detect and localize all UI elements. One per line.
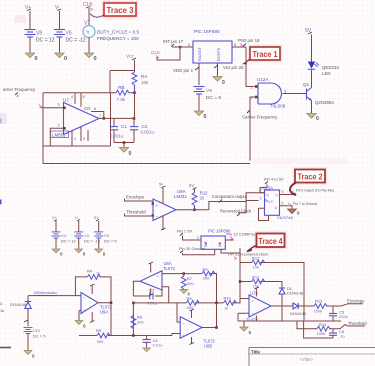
LED D2 QED234 bbox=[308, 62, 340, 77]
FF lower right pin bbox=[280, 206, 293, 209]
opamp left power stubs bbox=[91, 286, 93, 323]
wire carrier vertical to gate pin2 bbox=[250, 97, 258, 161]
resistor R7 to ground bbox=[181, 274, 194, 290]
wire VDD pin down to V9 bbox=[198, 63, 200, 85]
wire to FF clk pin bbox=[246, 200, 258, 202]
ground under rail bbox=[240, 321, 252, 335]
mid rail with R8 bbox=[133, 302, 216, 304]
wire pin4 bbox=[260, 185, 267, 193]
U8B power stubs bbox=[191, 311, 193, 345]
555 bottom pins bbox=[72, 127, 88, 146]
LM555 triangle U7 bbox=[51, 98, 100, 138]
resistor RB bbox=[116, 85, 129, 102]
label 5V bbox=[305, 28, 312, 34]
ground under Vss bbox=[213, 77, 225, 87]
555 box outline bbox=[43, 93, 111, 164]
threshold branch R14 bbox=[297, 321, 345, 336]
output wire bbox=[176, 209, 209, 211]
resistor R12 pullup bbox=[192, 189, 208, 210]
resistor RA bbox=[132, 71, 149, 93]
pic1 U block bbox=[188, 29, 237, 63]
ground +in bbox=[75, 321, 86, 329]
resistor R11 (lower 10k) bbox=[240, 263, 282, 289]
mid ground rail bbox=[238, 320, 341, 322]
U8A pins right bbox=[162, 274, 169, 303]
op-amp U8A mirrored bbox=[140, 261, 176, 290]
op-amp U9A TL072 (left) bbox=[81, 293, 113, 315]
battery V9 bbox=[194, 87, 222, 111]
ground under Q1 bbox=[307, 114, 319, 123]
U8B input wires bbox=[172, 303, 180, 336]
ground under V10 bbox=[24, 351, 35, 359]
FF block U13A bbox=[263, 186, 294, 221]
U8A power stubs bbox=[150, 264, 152, 296]
Trace 1 callout box bbox=[244, 46, 281, 64]
feedback resistor R4 bbox=[75, 269, 111, 303]
label Vcc bbox=[126, 54, 136, 61]
wire recovered clock stub bbox=[238, 202, 246, 213]
op-amp U9A LM311 bbox=[153, 189, 188, 221]
wire pin1 bbox=[183, 236, 202, 241]
wire RA/RB node down to caps bbox=[134, 93, 136, 119]
transistor Q1 bbox=[303, 82, 334, 105]
FF left pins bbox=[259, 193, 265, 209]
source V5 bbox=[94, 215, 117, 249]
label VDD pin 1 bbox=[173, 67, 199, 73]
Trace 2 callout box bbox=[290, 169, 326, 195]
wire top rail with R9 bbox=[162, 274, 217, 303]
FF output Q pin5 bbox=[280, 194, 296, 196]
U8B output bbox=[202, 303, 217, 328]
diode D3 bbox=[10, 296, 31, 326]
capacitor C2 bbox=[130, 118, 155, 142]
ground under C4 bbox=[143, 348, 150, 352]
wire vertical PS0 to gate pin1 bbox=[246, 47, 258, 87]
label Threshold (right) bbox=[345, 321, 367, 326]
label PS0 pin 15 bbox=[238, 38, 260, 47]
bottom cap rail + ground bbox=[114, 143, 134, 148]
555 pin3 bbox=[41, 107, 64, 109]
resistor R13 bbox=[314, 299, 342, 314]
resistor R5 bbox=[79, 328, 133, 344]
diode D4 vertical bbox=[279, 282, 303, 322]
wire gate output to Q1 base bbox=[283, 93, 307, 95]
net label (blue underlined) bbox=[34, 290, 58, 295]
wire Vss pin down bbox=[217, 63, 219, 76]
label Pin 20 Ground bbox=[179, 246, 205, 253]
Trace 3 callout box bbox=[90, 2, 137, 17]
label Comparator output bbox=[212, 194, 248, 203]
555 pin2 bbox=[50, 128, 63, 146]
capacitor C4 bbox=[142, 336, 162, 348]
label Pin 12 COMPout bbox=[227, 232, 258, 240]
source V6 bbox=[54, 5, 86, 53]
lm311 power stubs bbox=[162, 188, 164, 230]
ground under V3 bbox=[75, 249, 86, 257]
pulse source VT bbox=[83, 2, 139, 53]
node junction dots bbox=[255, 85, 258, 88]
wire PS0 from pin8 bbox=[232, 46, 246, 48]
label Pin 11 recovered clock bbox=[228, 252, 268, 260]
ground under caps bbox=[119, 148, 131, 158]
ground under V9 bbox=[194, 111, 206, 120]
resistor R2 (upper 10k) bbox=[240, 256, 304, 322]
capacitor C5 bbox=[329, 306, 348, 321]
wire pin12 bbox=[225, 239, 233, 240]
label Pin 4 to 5V bbox=[264, 177, 284, 185]
ground under V5 bbox=[95, 249, 106, 257]
output rail from 555 apex bbox=[99, 117, 134, 119]
wire 5V to LED bbox=[311, 35, 313, 62]
bottom rail bbox=[133, 335, 172, 337]
label INT pin 17 bbox=[163, 39, 184, 47]
label Envelope (right) bbox=[341, 299, 365, 307]
node envelope pin bbox=[152, 203, 154, 205]
left edge clipped marks bbox=[0, 15, 26, 348]
label CLK (to PIC1) bbox=[151, 50, 161, 59]
resistor R9 bbox=[202, 267, 215, 281]
battery V10 bbox=[23, 320, 46, 350]
FF bottom loop wire bbox=[259, 208, 269, 220]
diode D1 horizontal bbox=[290, 303, 314, 316]
ground under VT bbox=[84, 53, 96, 62]
ground under V8 bbox=[25, 53, 37, 62]
wire collector up / emitter down bbox=[311, 70, 313, 88]
output wire bbox=[98, 303, 111, 336]
right opamp -in wire bbox=[238, 313, 249, 321]
U8A output wire going left/down bbox=[133, 281, 140, 335]
wire -in from diode node bbox=[28, 295, 81, 297]
pic2 block bbox=[201, 229, 231, 250]
and gate U12A bbox=[251, 77, 288, 109]
wire comparator output to FF bbox=[209, 193, 259, 210]
ground under V6 bbox=[55, 53, 67, 62]
resistor R8 bbox=[186, 296, 199, 310]
label Envelope bbox=[125, 195, 154, 204]
bottom link wire bbox=[304, 321, 333, 338]
wire pin11 bbox=[221, 248, 240, 263]
source V3 bbox=[74, 215, 101, 249]
555 top pins 4,8 bbox=[75, 93, 81, 107]
ground under R7 bbox=[180, 290, 191, 297]
wire R-node down to opamp bbox=[240, 282, 249, 299]
label Pin 5 Output of D Flip-Flop bbox=[292, 189, 334, 195]
Trace 4 callout box bbox=[247, 233, 286, 252]
wire pin20 bbox=[183, 249, 215, 254]
op-amp U8B bbox=[180, 317, 215, 349]
wire Vcc down to RA bbox=[110, 60, 135, 93]
label Threshold bbox=[125, 210, 154, 217]
label Pin 1 5V bbox=[177, 229, 192, 236]
long bottom rail to AND pin2 bbox=[43, 163, 250, 165]
label Vss pin 20 bbox=[214, 65, 244, 70]
output wire + diode D1 bbox=[271, 305, 293, 307]
capacitor C3 bbox=[133, 288, 162, 306]
ground pin7 bbox=[288, 209, 301, 216]
label Carrier Frequency bbox=[242, 110, 278, 120]
+in wire to ground bbox=[79, 311, 81, 321]
label Recovered Clock bbox=[220, 209, 252, 217]
capacitor C1 bbox=[110, 118, 128, 142]
label Carrier Frequency (left edge) bbox=[3, 87, 36, 97]
capacitor C6 bbox=[329, 329, 345, 339]
source V4 bbox=[51, 215, 76, 249]
resistor R10 bbox=[217, 296, 241, 311]
resistor R6 vertical bbox=[131, 313, 144, 329]
right opamp power stubs bbox=[255, 289, 257, 322]
label Pin 7 to Ground bbox=[288, 202, 317, 206]
wire CLK to pin2 bbox=[157, 47, 193, 60]
node threshold pin bbox=[152, 214, 154, 216]
top rail of 555 box with RB bbox=[43, 92, 135, 94]
label 5V above R12 bbox=[189, 183, 197, 190]
source V8 bbox=[25, 5, 55, 53]
ground under V4 bbox=[52, 249, 63, 257]
op-amp right U7A bbox=[246, 291, 271, 323]
